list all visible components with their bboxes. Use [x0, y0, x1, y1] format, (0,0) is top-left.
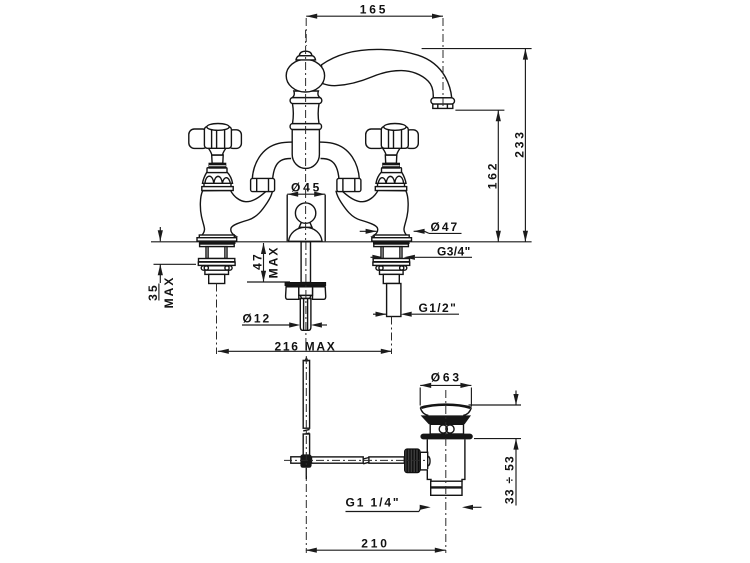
pop-up dome — [289, 227, 323, 241]
finial dome — [299, 51, 312, 56]
svg-text:G1/2": G1/2" — [419, 301, 458, 315]
tailpipe — [431, 481, 462, 495]
svg-text:Ø45: Ø45 — [291, 180, 322, 194]
drain body — [427, 439, 465, 481]
clamp top plate (dark) — [285, 283, 326, 286]
spout outlet axis — [442, 18, 444, 106]
rod break 2 — [363, 458, 369, 460]
flange fillet right — [463, 408, 471, 416]
right handle — [366, 124, 419, 149]
svg-text:47: 47 — [250, 252, 264, 270]
column ring lower — [290, 124, 321, 130]
dim 33-53 — [469, 404, 522, 406]
left handle — [189, 124, 242, 149]
centre column axis — [305, 30, 307, 240]
right shank axis — [391, 317, 393, 355]
pop-up rod axis below deck — [305, 242, 307, 345]
horizontal rod mid — [312, 457, 364, 463]
pop-up ball neck — [299, 223, 312, 228]
svg-text:165: 165 — [360, 3, 388, 17]
drain axis — [445, 390, 447, 553]
dim 162 ext top — [455, 109, 504, 111]
flange cone (dark) — [421, 415, 471, 424]
left valve leg assembly — [197, 148, 272, 244]
clamp centre block — [299, 287, 313, 296]
aerator tip — [433, 104, 453, 108]
left shank axis — [216, 284, 218, 355]
label G1/2" — [373, 313, 387, 315]
dim 162 line — [497, 110, 499, 242]
bridge nut left — [251, 178, 275, 191]
dim 165 line — [306, 15, 443, 17]
lift rod upper — [303, 360, 309, 428]
deck line — [151, 241, 532, 243]
bridge outer arc right — [319, 142, 359, 179]
dim O45 — [287, 193, 325, 195]
dim 35 MAX — [159, 227, 161, 241]
o-ring (dark) — [420, 434, 472, 440]
clamp left wing — [286, 287, 299, 300]
drain flange top — [420, 404, 471, 408]
svg-text:Ø12: Ø12 — [243, 312, 272, 326]
dim 233 line — [524, 49, 526, 242]
svg-text:162: 162 — [486, 161, 500, 189]
pop-up rod upper — [301, 242, 310, 283]
horizontal rod axis — [284, 459, 427, 461]
dim 210 — [306, 549, 446, 551]
dim 165 ext left (centerline) — [305, 18, 307, 46]
svg-text:35: 35 — [146, 283, 160, 301]
pop-up window rectangle — [286, 195, 288, 242]
dim O47 — [360, 230, 377, 232]
dim 233 ext top — [422, 48, 532, 50]
right supply tube — [387, 284, 401, 317]
seat arc — [428, 456, 430, 466]
pivot joint (dark) — [300, 454, 311, 467]
svg-text:G3/4": G3/4" — [437, 244, 471, 258]
svg-text:233: 233 — [513, 129, 527, 157]
dim 47 MAX — [263, 243, 265, 282]
neck cylinder — [430, 424, 463, 434]
bottom rod axis — [305, 356, 307, 553]
pop-up ball — [295, 203, 315, 223]
svg-text:MAX: MAX — [162, 276, 176, 309]
pivot tail — [305, 468, 307, 479]
ball neck — [292, 91, 320, 98]
flange fillet left — [420, 408, 428, 416]
dim 216 MAX — [218, 350, 392, 352]
aerator ring — [431, 98, 455, 104]
finial band — [296, 56, 316, 60]
spout ball — [286, 59, 324, 92]
right shank stack — [373, 244, 410, 284]
pop-up rod lower (threaded) — [300, 299, 311, 331]
bridge inner arch — [273, 159, 339, 180]
lift rod lower — [303, 434, 309, 456]
clamp right wing — [313, 287, 326, 300]
column collar ring — [290, 98, 322, 104]
horizontal rod right — [369, 457, 404, 463]
right valve leg assembly (mirrored) — [336, 148, 411, 244]
svg-text:33 ÷ 53: 33 ÷ 53 — [503, 455, 517, 504]
svg-text:Ø47: Ø47 — [431, 220, 460, 234]
bridge nut right — [337, 178, 361, 191]
rod break — [303, 429, 309, 431]
side port — [420, 452, 427, 470]
svg-text:210: 210 — [361, 536, 389, 550]
svg-text:MAX: MAX — [267, 246, 281, 279]
spout tube — [322, 49, 452, 97]
horizontal rod left stub — [291, 457, 303, 463]
svg-text:Ø63: Ø63 — [431, 371, 462, 385]
column shaft — [292, 103, 319, 123]
bridge outer arc left — [252, 142, 292, 179]
label G3/4" — [371, 256, 384, 258]
centre column lower (above bridge) — [292, 129, 319, 168]
knurled nut — [405, 449, 420, 473]
svg-text:G1 1/4": G1 1/4" — [346, 495, 401, 509]
left shank stack — [198, 244, 235, 284]
